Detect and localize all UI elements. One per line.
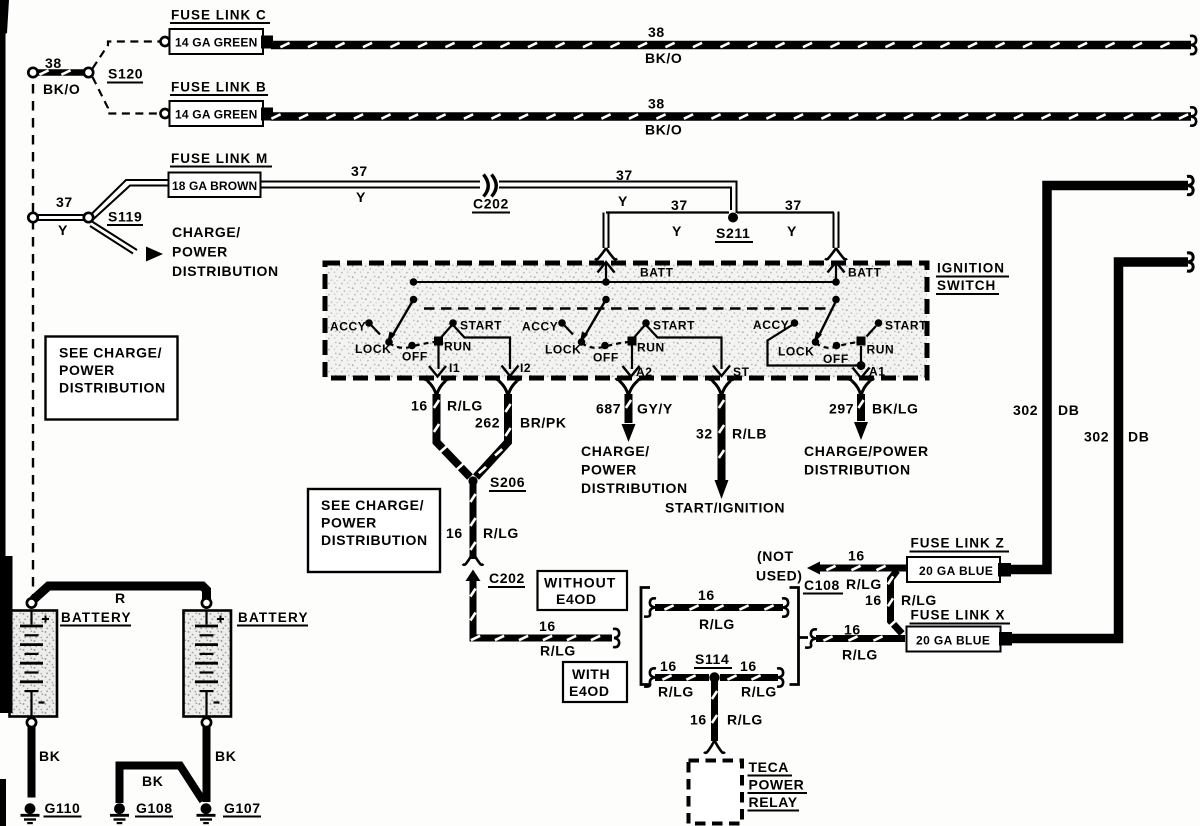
svg-text:ACCY: ACCY — [330, 320, 366, 334]
svg-text:297: 297 — [829, 401, 854, 417]
arrow A2 wire to charge/power distribution — [622, 424, 636, 442]
svg-text:BR/PK: BR/PK — [520, 415, 567, 431]
svg-text:262: 262 — [475, 415, 500, 431]
svg-text:OFF: OFF — [823, 352, 849, 366]
node at left end of 38 BK/O — [28, 68, 37, 77]
wire 302 DB from fuse link Z to right edge — [1008, 176, 1193, 569]
dashed branch S120 to fuse link B — [93, 77, 161, 114]
connector fork at left BATT — [595, 248, 617, 259]
fuse link B label — [170, 80, 268, 96]
connector C202 (inline, on 37 Y) — [484, 175, 497, 197]
svg-text:BATT: BATT — [640, 266, 674, 280]
svg-text:C108: C108 — [804, 577, 840, 593]
svg-text:20 GA BLUE: 20 GA BLUE — [916, 634, 990, 648]
note box SEE CHARGE/POWER DISTRIBUTION (upper left) — [46, 337, 178, 420]
arrow A1 wire to charge/power distribution — [854, 422, 868, 440]
label CHARGE/POWER DISTRIBUTION (left) — [172, 224, 279, 279]
wire 297 BK/LG from A1 — [858, 394, 863, 421]
wire 32 R/LB from ST — [719, 394, 724, 480]
svg-text:CHARGE/POWER: CHARGE/POWER — [804, 443, 929, 459]
label (NOT USED) — [756, 548, 803, 584]
svg-text:BATTERY: BATTERY — [61, 610, 132, 625]
battery 2 - terminal — [202, 718, 211, 727]
svg-text:OFF: OFF — [593, 351, 619, 365]
splice S206 — [468, 476, 477, 485]
wire R between batteries — [33, 586, 207, 600]
connector fork at I2 — [495, 379, 521, 396]
switch 3 wire RUN to A1 terminal — [860, 346, 862, 363]
svg-text:IGNITION: IGNITION — [937, 261, 1005, 276]
wire 262 BR/PK from I2 to S206 — [476, 394, 511, 477]
svg-text:S114: S114 — [695, 651, 729, 667]
connector fork at ST — [709, 379, 735, 396]
svg-text:BK: BK — [39, 748, 60, 764]
fuse link X label — [910, 608, 1011, 624]
battery 1 — [10, 611, 58, 717]
wire 16 R/LG between fuse link Z and fuse link X wires — [888, 571, 902, 634]
arrow ST wire to start/ignition — [715, 480, 729, 499]
wire 37 Y (node to S119) — [36, 215, 86, 220]
svg-text:E4OD: E4OD — [556, 591, 597, 607]
svg-text:302: 302 — [1084, 429, 1109, 445]
fuse link X box 20 GA BLUE — [907, 627, 1001, 652]
wire 16 R/LG from S114 to TECA power relay — [704, 681, 725, 753]
svg-text:S120: S120 — [108, 66, 143, 82]
splice S211 — [728, 213, 738, 223]
svg-text:START/IGNITION: START/IGNITION — [665, 500, 785, 516]
svg-text:687: 687 — [596, 401, 621, 417]
svg-text:Y: Y — [356, 189, 366, 205]
svg-text:R/LG: R/LG — [699, 616, 735, 632]
label S206 — [489, 474, 526, 491]
svg-text:G110: G110 — [45, 800, 81, 816]
svg-text:SEE CHARGE/: SEE CHARGE/ — [321, 497, 424, 513]
fuse link M label — [170, 151, 272, 167]
svg-text:BK/O: BK/O — [43, 81, 80, 97]
svg-text:SEE CHARGE/: SEE CHARGE/ — [59, 345, 162, 361]
svg-text:G108: G108 — [136, 800, 173, 816]
splice S119 — [84, 213, 93, 222]
svg-text:37: 37 — [671, 197, 688, 213]
svg-text:16: 16 — [698, 587, 715, 603]
cropped vertical wire along left page edge — [0, 0, 6, 713]
svg-text:DISTRIBUTION: DISTRIBUTION — [804, 462, 911, 478]
wire 16 R/LG (with E4OD, left of S114) — [644, 668, 709, 686]
wire 16 R/LG from S206 down — [470, 484, 475, 559]
battery 2 + terminal — [202, 598, 211, 607]
svg-text:16: 16 — [411, 398, 428, 414]
switch 2 wire RUN to A2 terminal — [623, 345, 640, 377]
svg-text:LOCK: LOCK — [545, 343, 581, 357]
wire 302 DB from fuse link X to right edge — [1009, 253, 1193, 639]
wire 37 Y from S211 to right BATT — [737, 212, 839, 249]
label CHARGE/POWER DISTRIBUTION (A2) — [581, 443, 688, 496]
wire 38 BK/O (node to S120) — [36, 70, 85, 74]
svg-text:I2: I2 — [520, 361, 531, 375]
wire 37 Y from C202 to S211 — [499, 182, 737, 214]
arrow A1 terminal — [853, 366, 870, 379]
note box WITH E4OD — [563, 662, 627, 702]
svg-text:16: 16 — [690, 712, 707, 728]
arrow to C108 (not used) — [807, 562, 820, 575]
label CHARGE/POWER DISTRIBUTION (A1) — [804, 443, 929, 478]
svg-text:16: 16 — [446, 525, 463, 541]
wire 16 R/LG from fuse link Z to C108 — [819, 566, 906, 570]
fuse link C label — [170, 8, 270, 24]
switch 3 wire ACCY to A1 terminal — [768, 324, 859, 366]
splice S120 — [84, 68, 93, 77]
wire 16 R/LG (with E4OD, right of S114) — [720, 668, 783, 686]
svg-text:37: 37 — [785, 197, 802, 213]
connector C202 (inline on S206 wire) — [463, 552, 484, 581]
svg-text:C202: C202 — [489, 570, 525, 586]
wire 16 R/LG from I1 to S206 — [434, 394, 470, 477]
dashed branch S120 to fuse link C — [93, 42, 161, 69]
connector fork at A1 — [848, 379, 874, 396]
svg-text:ACCY: ACCY — [522, 320, 558, 334]
svg-text:DISTRIBUTION: DISTRIBUTION — [172, 263, 279, 279]
svg-text:DISTRIBUTION: DISTRIBUTION — [581, 480, 688, 496]
wire 16 R/LG (without E4OD) — [644, 598, 788, 616]
svg-text:BK/LG: BK/LG — [872, 401, 919, 417]
fuse link C output connector blob — [261, 36, 273, 49]
svg-text:37: 37 — [56, 194, 73, 210]
svg-text:RUN: RUN — [444, 340, 472, 354]
svg-text:(NOT: (NOT — [757, 548, 794, 564]
svg-text:BK: BK — [142, 773, 163, 789]
label C108 — [803, 577, 843, 594]
svg-text:BATTERY: BATTERY — [238, 610, 309, 625]
svg-text:S206: S206 — [490, 474, 525, 490]
svg-text:BK/O: BK/O — [645, 122, 682, 138]
cropped component at left page edge — [0, 556, 13, 713]
wire 37 Y from S211 to left BATT — [604, 212, 730, 249]
svg-text:E4OD: E4OD — [569, 683, 610, 699]
dashed vertical wire from node down to battery — [32, 84, 34, 596]
svg-text:START: START — [460, 319, 502, 333]
svg-text:POWER: POWER — [321, 515, 377, 531]
svg-text:302: 302 — [1013, 402, 1038, 418]
svg-text:Y: Y — [787, 223, 797, 239]
switch 3 contacts (ACCY/LOCK/OFF/RUN/START) — [791, 278, 883, 349]
svg-text:ST: ST — [733, 365, 750, 379]
svg-text:38: 38 — [648, 96, 665, 112]
svg-text:BK: BK — [215, 748, 236, 764]
splice S114 — [709, 672, 719, 682]
svg-text:18 GA BROWN: 18 GA BROWN — [172, 179, 257, 193]
svg-text:SWITCH: SWITCH — [937, 278, 996, 293]
svg-text:14 GA GREEN: 14 GA GREEN — [175, 108, 257, 122]
svg-text:BK/O: BK/O — [645, 50, 682, 66]
svg-text:R/LG: R/LG — [658, 684, 694, 700]
svg-text:R/LB: R/LB — [732, 426, 767, 442]
wire 37 Y from fuse link M to C202 — [261, 182, 481, 188]
svg-text:16: 16 — [865, 592, 882, 608]
wire BK from G108 to G107 — [120, 766, 204, 804]
svg-text:R/LG: R/LG — [727, 712, 763, 728]
svg-text:G107: G107 — [224, 800, 261, 816]
svg-text:R: R — [115, 590, 126, 606]
svg-text:WITHOUT: WITHOUT — [544, 575, 616, 591]
svg-text:POWER: POWER — [749, 777, 805, 793]
wire branch S119 up to fuse link M — [92, 180, 169, 219]
svg-text:16: 16 — [844, 622, 861, 638]
inner dashed line of ignition switch — [424, 307, 826, 309]
svg-text:R/LG: R/LG — [901, 592, 937, 608]
svg-text:S119: S119 — [108, 209, 142, 225]
svg-text:38: 38 — [45, 55, 62, 71]
svg-text:37: 37 — [616, 167, 633, 183]
svg-text:WITH: WITH — [572, 666, 610, 682]
svg-text:START: START — [885, 319, 927, 333]
svg-text:20 GA BLUE: 20 GA BLUE — [919, 564, 993, 578]
svg-text:16: 16 — [660, 658, 677, 674]
switch 1 wire RUN to I1 terminal — [429, 345, 446, 377]
svg-text:GY/Y: GY/Y — [637, 401, 673, 417]
fuse link C box 14 GA GREEN — [170, 29, 264, 54]
connector fork at right BATT — [825, 248, 847, 259]
svg-text:POWER: POWER — [581, 462, 637, 478]
svg-text:BATT: BATT — [848, 266, 882, 280]
wire 38 BK/O from fuse link B to right edge — [271, 107, 1196, 125]
TECA power relay dashed box — [689, 761, 743, 824]
svg-text:DISTRIBUTION: DISTRIBUTION — [59, 380, 166, 396]
fuse link Z label — [910, 536, 1010, 552]
label TECA POWER RELAY — [748, 759, 808, 811]
fuse link B box 14 GA GREEN — [170, 101, 264, 126]
label S120 — [107, 66, 143, 83]
svg-text:RELAY: RELAY — [749, 794, 798, 810]
svg-text:OFF: OFF — [402, 350, 428, 364]
battery 1 - terminal — [27, 718, 36, 727]
svg-text:R/LG: R/LG — [447, 398, 483, 414]
fuse link B terminal circle — [161, 109, 170, 118]
bus wire inside ignition switch — [414, 281, 838, 283]
wire 16 R/LG from bracket to fuse link X — [805, 629, 905, 647]
ground G110 — [21, 800, 82, 823]
svg-text:32: 32 — [696, 426, 713, 442]
battery 1 + terminal — [27, 598, 36, 607]
svg-text:16: 16 — [848, 548, 865, 564]
svg-text:38: 38 — [648, 24, 665, 40]
svg-text:I1: I1 — [449, 361, 460, 375]
left bracket (E4OD options) — [641, 588, 650, 685]
svg-text:R/LG: R/LG — [483, 525, 519, 541]
svg-text:Y: Y — [672, 223, 682, 239]
svg-text:Y: Y — [58, 222, 68, 238]
svg-text:S211: S211 — [716, 225, 750, 241]
arrow into right BATT terminal — [828, 262, 845, 282]
right bracket (E4OD options) — [790, 588, 809, 685]
arrow to charge/power distribution (left) — [146, 247, 163, 262]
fuse link Z output connector blob — [998, 563, 1011, 577]
label C202 (lower) — [488, 570, 525, 587]
label IGNITION SWITCH — [936, 261, 1009, 295]
cropped wire stub at top-left page edge — [0, 0, 9, 37]
svg-text:FUSE LINK C: FUSE LINK C — [171, 8, 267, 23]
wire BK battery 2 to G107 — [203, 727, 211, 802]
battery 2 — [184, 611, 232, 717]
svg-text:RUN: RUN — [637, 341, 665, 355]
svg-text:FUSE LINK M: FUSE LINK M — [171, 151, 268, 166]
svg-text:CHARGE/: CHARGE/ — [581, 443, 650, 459]
svg-text:14 GA GREEN: 14 GA GREEN — [175, 36, 257, 50]
ground G107 — [197, 800, 262, 823]
svg-text:Y: Y — [618, 193, 628, 209]
wire 38 BK/O from fuse link C to right edge — [271, 36, 1196, 54]
svg-text:37: 37 — [351, 163, 368, 179]
wire 687 GY/Y from A2 — [626, 394, 631, 423]
fuse link Z box 20 GA BLUE — [907, 557, 1000, 582]
arrow into left BATT terminal — [598, 262, 615, 282]
svg-text:START: START — [653, 319, 695, 333]
svg-text:R/LG: R/LG — [842, 647, 878, 663]
connector fork at I1 — [424, 379, 450, 396]
junction at A1 terminal — [857, 361, 866, 370]
svg-text:R/LG: R/LG — [540, 643, 576, 659]
switch 1 contacts (ACCY/LOCK/OFF/RUN/START) — [365, 278, 457, 349]
label S114 — [694, 651, 732, 668]
label S211 — [715, 225, 753, 242]
svg-text:LOCK: LOCK — [355, 342, 391, 356]
svg-text:FUSE LINK Z: FUSE LINK Z — [911, 536, 1005, 551]
svg-text:CHARGE/: CHARGE/ — [172, 224, 241, 240]
cropped wire stub at bottom-left page edge — [0, 779, 6, 826]
fuse link X output connector blob — [999, 632, 1012, 646]
svg-text:A1: A1 — [869, 365, 886, 379]
switch 2 contacts (ACCY/LOCK/OFF/RUN/START) — [558, 278, 650, 349]
switch 2 wire START to ST terminal — [635, 325, 731, 376]
fuse link C terminal circle — [161, 37, 170, 46]
svg-text:POWER: POWER — [59, 362, 115, 378]
label C202 (top) — [472, 196, 510, 213]
svg-text:R/LG: R/LG — [846, 576, 882, 592]
svg-text:C202: C202 — [473, 196, 509, 212]
connector fork at A2 — [616, 379, 642, 396]
wire BK battery 1 to G110 — [28, 727, 36, 798]
note box WITHOUT E4OD — [538, 571, 628, 610]
svg-text:DB: DB — [1128, 429, 1149, 445]
wire branch S119 down to charge/power distribution — [90, 222, 137, 254]
svg-text:TECA: TECA — [749, 759, 790, 775]
fuse link B output connector blob — [261, 108, 273, 121]
svg-text:16: 16 — [740, 658, 757, 674]
wire 16 R/LG from C202 to E4OD bracket — [470, 581, 619, 648]
svg-text:FUSE LINK B: FUSE LINK B — [171, 80, 267, 95]
svg-text:16: 16 — [539, 618, 556, 634]
svg-text:POWER: POWER — [172, 244, 228, 260]
svg-text:DB: DB — [1058, 402, 1079, 418]
ground G108 — [110, 800, 173, 823]
svg-text:RUN: RUN — [867, 343, 895, 357]
svg-text:LOCK: LOCK — [778, 345, 814, 359]
svg-text:FUSE LINK X: FUSE LINK X — [911, 608, 1006, 623]
svg-text:USED): USED) — [756, 568, 803, 584]
svg-text:R/LG: R/LG — [741, 684, 777, 700]
ignition switch dashed box — [325, 263, 927, 378]
switch 1 wire START to I2 terminal — [442, 325, 519, 376]
label S119 — [107, 209, 143, 226]
svg-text:A2: A2 — [636, 365, 653, 379]
svg-text:DISTRIBUTION: DISTRIBUTION — [321, 532, 428, 548]
fuse link M box 18 GA BROWN — [169, 173, 261, 198]
node at left end of 37 Y — [28, 213, 37, 222]
note box SEE CHARGE/POWER DISTRIBUTION (middle) — [308, 489, 440, 572]
